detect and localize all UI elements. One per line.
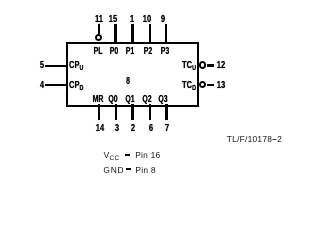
label P3 — [157, 46, 173, 56]
label CPU — [69, 60, 83, 73]
wire pin 5 (CPU) — [45, 65, 67, 67]
label P0 — [106, 46, 122, 56]
wire pin 2 (Q1) — [131, 104, 133, 120]
equals dash 2 — [126, 168, 131, 170]
note GND = Pin 8 — [103, 166, 124, 175]
label MR — [90, 94, 106, 104]
pin number 14 — [91, 123, 108, 133]
wire pin 6 (Q2) — [149, 104, 151, 120]
pin number 3 — [108, 123, 125, 133]
pin number 9 — [155, 14, 172, 24]
label Q2 — [139, 94, 155, 104]
wire pin 4 (CPD) — [45, 84, 67, 86]
label TCU — [182, 60, 196, 73]
active-low bubble on PL — [95, 34, 103, 42]
label Q3 — [155, 94, 171, 104]
label P1 — [122, 46, 138, 56]
IC body U1 (4-bit up/down counter) — [66, 42, 200, 107]
label Q1 — [122, 94, 138, 104]
wire pin 7 (Q3) — [165, 104, 167, 120]
label P2 — [140, 46, 156, 56]
wire pin 10 (P2) — [149, 24, 151, 44]
text Pin 16 — [135, 151, 160, 160]
active-low bubble on TCD — [199, 81, 206, 88]
text Pin 8 — [135, 166, 155, 175]
label Q0 — [105, 94, 121, 104]
pin number 4 — [33, 80, 50, 90]
wire TCD to pin 13 — [207, 84, 215, 86]
wire TCU to pin 12 — [207, 64, 215, 66]
wire pin 9 (P3) — [165, 24, 167, 44]
pin number 13 — [212, 80, 229, 90]
pin number 11 — [91, 14, 108, 24]
pin number 7 — [158, 123, 175, 133]
pin number 15 — [104, 14, 121, 24]
pin number 12 — [213, 60, 230, 70]
wire pin 14 (MR) — [98, 104, 100, 120]
pin number 6 — [142, 123, 159, 133]
wire pin 15 (P0) — [114, 24, 116, 44]
active-low bubble on TCU — [199, 61, 206, 68]
figure number TL/F/10178-2 — [227, 135, 282, 144]
note VCC = Pin 16 — [104, 151, 120, 163]
wire pin 1 (P1) — [131, 24, 133, 44]
wire pin 11 (PL) top stub — [98, 24, 100, 35]
pin number 1 — [123, 14, 140, 24]
center label pin 8 — [120, 76, 136, 86]
label TCD — [182, 80, 196, 93]
label CPD — [69, 80, 83, 93]
label PL — [90, 46, 106, 56]
pin number 10 — [138, 14, 155, 24]
pin number 2 — [124, 123, 141, 133]
wire pin 3 (Q0) — [115, 104, 117, 120]
equals dash 1 — [125, 154, 130, 156]
pin number 5 — [33, 60, 50, 70]
